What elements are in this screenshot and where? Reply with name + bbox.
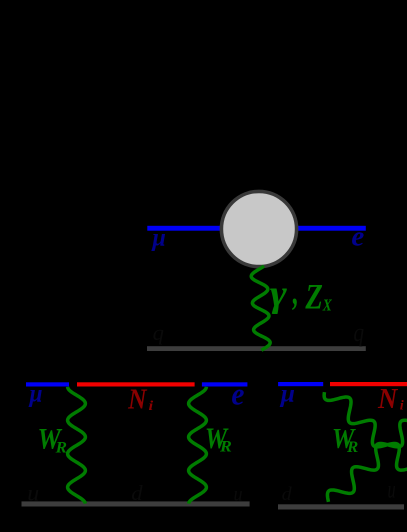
svg-text:u: u — [27, 481, 39, 507]
svg-text:R: R — [219, 438, 232, 456]
svg-text:R: R — [55, 438, 67, 456]
svg-text:γ: γ — [270, 272, 288, 315]
svg-text:e: e — [231, 376, 244, 411]
svg-text:i: i — [149, 398, 154, 413]
svg-text:q: q — [353, 319, 364, 347]
svg-text:e: e — [351, 221, 364, 252]
svg-text:N: N — [127, 383, 148, 415]
svg-text:X: X — [322, 296, 333, 315]
svg-text:μ: μ — [28, 380, 43, 408]
svg-text:R: R — [346, 437, 358, 456]
svg-text:q: q — [153, 320, 164, 345]
svg-text:u: u — [388, 475, 396, 504]
svg-text:d: d — [282, 483, 292, 505]
svg-text:u: u — [233, 482, 242, 506]
svg-text:μ: μ — [279, 379, 295, 408]
svg-text:,: , — [292, 270, 299, 313]
svg-text:μ: μ — [150, 224, 166, 252]
svg-text:Z: Z — [304, 278, 322, 318]
svg-text:i: i — [400, 398, 404, 412]
svg-text:d: d — [131, 480, 143, 504]
svg-text:N: N — [377, 383, 398, 415]
